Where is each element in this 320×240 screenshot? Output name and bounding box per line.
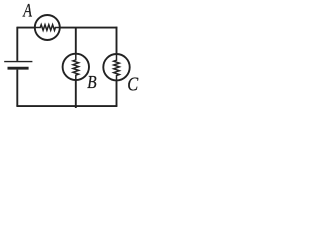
svg-text:C: C	[127, 73, 139, 95]
wire left vertical: battery down to bottom corner	[16, 70, 18, 107]
wire top: bulb A to top-right corner	[61, 27, 118, 29]
lamp C circle	[103, 54, 129, 80]
wire branch C: bulb C down to bottom wire	[116, 81, 118, 106]
battery B1 long plate	[4, 61, 32, 63]
battery B1 short thick plate	[8, 67, 29, 70]
wire top: left corner to bulb A	[17, 27, 34, 29]
svg-text:A: A	[22, 0, 32, 21]
wire branch C: top-right corner down to bulb C	[116, 27, 118, 54]
wire branch B: bulb B down to bottom wire	[75, 80, 77, 108]
lamp A filament zigzag	[35, 25, 60, 31]
wire branch B: top wire down to bulb B	[75, 28, 77, 54]
lamp A circle	[35, 15, 60, 40]
lamp B filament zigzag	[73, 54, 79, 80]
svg-text:B: B	[87, 72, 96, 92]
lamp C filament zigzag	[114, 54, 120, 80]
wire bottom: left corner to bottom-right corner	[16, 105, 117, 107]
wire left vertical: top corner down to battery	[16, 27, 18, 61]
lamp B circle	[63, 54, 89, 80]
